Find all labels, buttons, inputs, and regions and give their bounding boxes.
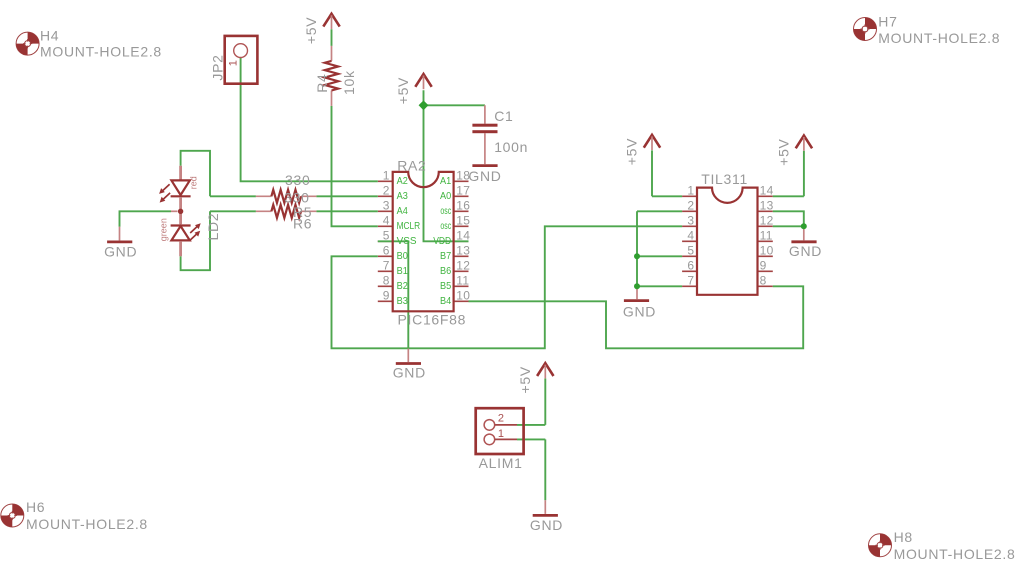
svg-text:330: 330 <box>285 172 310 188</box>
svg-text:A4: A4 <box>397 205 408 217</box>
svg-text:A2: A2 <box>397 175 408 187</box>
svg-text:1: 1 <box>498 428 504 440</box>
svg-text:12: 12 <box>760 214 774 228</box>
svg-text:GND: GND <box>789 243 822 259</box>
svg-text:13: 13 <box>760 199 774 213</box>
svg-text:MOUNT-HOLE2.8: MOUNT-HOLE2.8 <box>894 546 1016 562</box>
svg-text:A0: A0 <box>440 190 451 202</box>
svg-text:14: 14 <box>760 184 774 198</box>
svg-text:B1: B1 <box>397 265 408 277</box>
svg-text:RA2: RA2 <box>397 158 426 174</box>
svg-text:16: 16 <box>456 199 470 213</box>
svg-text:H4: H4 <box>40 27 59 43</box>
svg-text:MCLR: MCLR <box>397 220 421 232</box>
svg-text:1: 1 <box>227 60 239 66</box>
svg-text:15: 15 <box>456 214 470 228</box>
svg-text:10: 10 <box>456 289 470 303</box>
svg-text:B2: B2 <box>397 280 408 292</box>
svg-text:5: 5 <box>687 244 694 258</box>
svg-text:2: 2 <box>498 413 504 425</box>
svg-text:ALIM1: ALIM1 <box>479 455 523 471</box>
svg-text:1: 1 <box>687 184 694 198</box>
svg-text:8: 8 <box>760 274 767 288</box>
svg-text:osc: osc <box>440 220 451 232</box>
svg-text:GND: GND <box>530 517 563 533</box>
svg-text:TIL311: TIL311 <box>701 171 748 187</box>
svg-text:12: 12 <box>456 259 470 273</box>
svg-text:JP2: JP2 <box>210 54 226 80</box>
svg-text:H7: H7 <box>878 13 897 29</box>
svg-text:B4: B4 <box>440 295 451 307</box>
svg-text:C1: C1 <box>494 108 513 124</box>
svg-text:10: 10 <box>760 244 774 258</box>
svg-text:B3: B3 <box>397 295 408 307</box>
svg-text:11: 11 <box>456 274 469 288</box>
svg-text:MOUNT-HOLE2.8: MOUNT-HOLE2.8 <box>26 516 148 532</box>
svg-text:A3: A3 <box>397 190 408 202</box>
svg-text:3: 3 <box>687 214 694 228</box>
svg-text:8: 8 <box>383 274 390 288</box>
svg-text:10k: 10k <box>341 70 357 95</box>
svg-text:VSS: VSS <box>397 235 417 247</box>
svg-text:GND: GND <box>468 168 501 184</box>
svg-text:2: 2 <box>687 199 694 213</box>
svg-text:+5V: +5V <box>517 366 533 393</box>
svg-text:6: 6 <box>383 244 390 258</box>
svg-text:B6: B6 <box>440 265 451 277</box>
svg-text:B5: B5 <box>440 280 451 292</box>
svg-text:4: 4 <box>383 214 390 228</box>
svg-text:+5V: +5V <box>776 138 792 165</box>
svg-text:17: 17 <box>456 184 470 198</box>
svg-text:MOUNT-HOLE2.8: MOUNT-HOLE2.8 <box>878 30 1000 46</box>
svg-text:4: 4 <box>687 229 694 243</box>
svg-text:+5V: +5V <box>303 17 319 44</box>
svg-text:100n: 100n <box>494 139 528 155</box>
svg-text:+5V: +5V <box>624 138 640 165</box>
svg-text:LD2: LD2 <box>205 213 221 241</box>
svg-text:green: green <box>159 218 169 241</box>
svg-text:H6: H6 <box>26 499 45 515</box>
svg-text:GND: GND <box>104 243 137 259</box>
svg-text:13: 13 <box>456 244 470 258</box>
svg-text:7: 7 <box>687 274 694 288</box>
svg-text:PIC16F88: PIC16F88 <box>398 312 467 328</box>
svg-text:1: 1 <box>383 169 390 183</box>
svg-text:B7: B7 <box>440 250 451 262</box>
svg-text:9: 9 <box>760 259 767 273</box>
svg-text:GND: GND <box>393 364 426 380</box>
svg-text:osc: osc <box>440 205 451 217</box>
svg-text:VDD: VDD <box>433 235 451 247</box>
svg-text:2: 2 <box>383 184 390 198</box>
svg-text:red: red <box>188 176 198 189</box>
svg-text:B0: B0 <box>397 250 408 262</box>
svg-text:R4: R4 <box>314 74 330 93</box>
svg-text:18: 18 <box>456 169 470 183</box>
svg-text:7: 7 <box>383 259 390 273</box>
svg-text:9: 9 <box>383 289 390 303</box>
svg-text:+5V: +5V <box>395 77 411 104</box>
svg-text:6: 6 <box>687 259 694 273</box>
svg-text:MOUNT-HOLE2.8: MOUNT-HOLE2.8 <box>40 44 162 60</box>
svg-text:14: 14 <box>456 229 470 243</box>
svg-text:5: 5 <box>383 229 390 243</box>
svg-text:R6: R6 <box>293 215 312 231</box>
svg-text:11: 11 <box>760 229 773 243</box>
svg-text:3: 3 <box>383 199 390 213</box>
svg-text:H8: H8 <box>894 529 913 545</box>
svg-text:A1: A1 <box>440 175 451 187</box>
svg-text:GND: GND <box>623 303 656 319</box>
